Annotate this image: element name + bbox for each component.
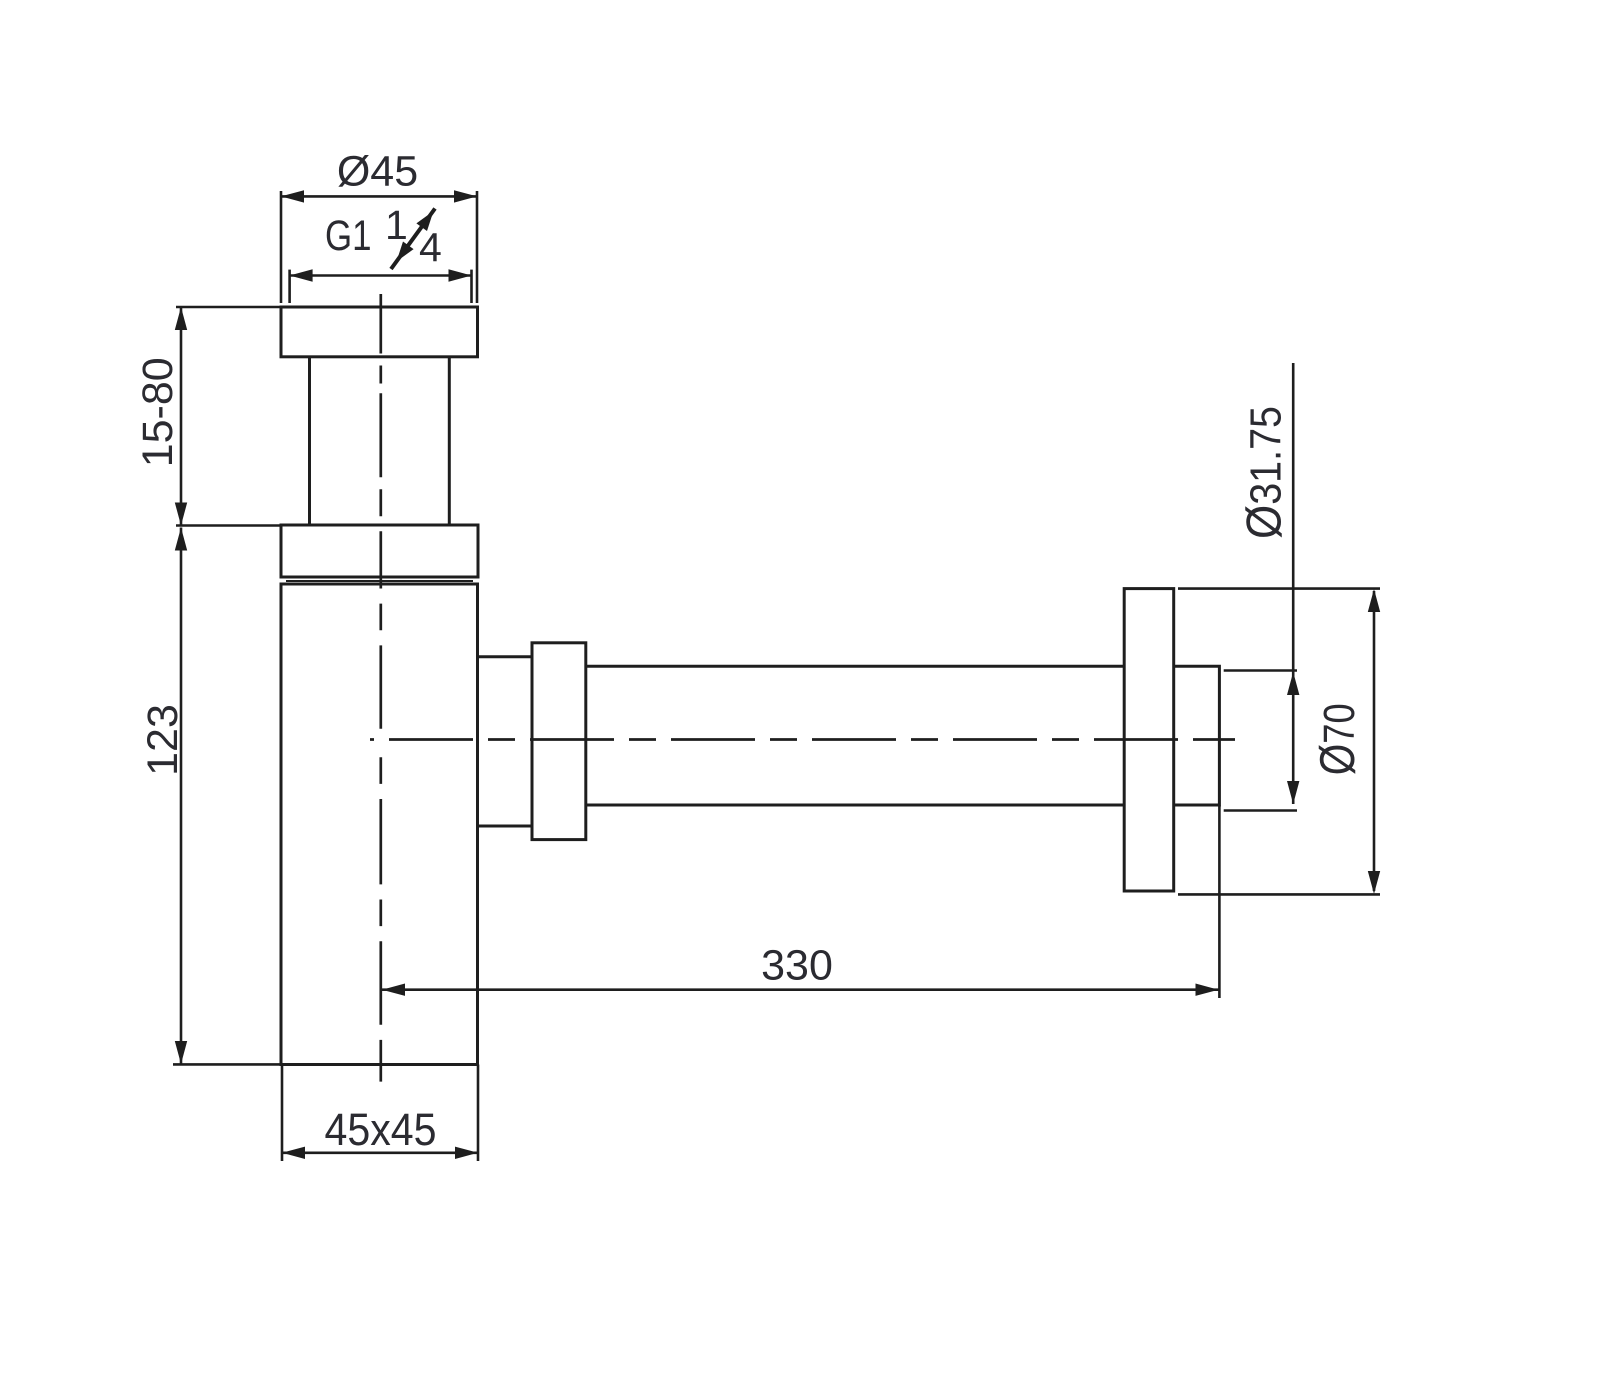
arrow 45x45 right	[455, 1147, 478, 1159]
arrow 330 left	[382, 984, 405, 996]
dim 330 extension	[1218, 805, 1221, 998]
dim Ø45 extension lines	[280, 191, 283, 303]
svg-text:45x45: 45x45	[325, 1104, 437, 1155]
svg-text:330: 330	[761, 942, 833, 990]
dim Ø70 line	[1373, 591, 1376, 891]
dim G1 extension ticks	[288, 270, 291, 303]
vertical centerline	[379, 294, 382, 1082]
svg-text:15-80: 15-80	[134, 357, 182, 467]
svg-text:4: 4	[419, 225, 442, 271]
arrow Ø70 bottom	[1368, 871, 1380, 894]
svg-text:1: 1	[385, 202, 408, 248]
arrow Ø70 top	[1368, 589, 1380, 612]
dim Ø70 extensions	[1178, 587, 1380, 590]
arrow 123 bottom	[175, 1041, 187, 1064]
dim 45x45 line	[282, 1152, 478, 1155]
arrow Ø45 right	[454, 190, 477, 202]
dim 45x45 extensions	[281, 1065, 284, 1162]
horizontal pipe bottom	[586, 804, 1124, 807]
body top collar	[281, 525, 478, 577]
arrow 15-80 top	[175, 307, 187, 330]
pipe end tail	[1174, 666, 1220, 805]
dim Ø31.75 line with overshoot	[1292, 363, 1295, 804]
compression nut	[532, 643, 586, 840]
inlet pipe wall right	[448, 357, 451, 525]
svg-text:G1: G1	[325, 212, 372, 260]
wall flange	[1124, 589, 1174, 891]
arrow 15-80 bottom	[175, 503, 187, 526]
dim 15-80 line	[180, 307, 183, 526]
dim 15-80 top extension	[176, 306, 283, 309]
top flange (inlet nut)	[281, 307, 478, 357]
arrow G1 left	[290, 269, 313, 281]
horizontal centerline	[370, 738, 1235, 741]
arrow Ø45 left	[281, 190, 304, 202]
svg-text:123: 123	[139, 704, 187, 776]
arrow Ø31.75 bottom	[1287, 781, 1299, 804]
svg-text:Ø45: Ø45	[337, 148, 418, 196]
dim 123 line	[180, 528, 183, 1065]
arrow 123 top	[175, 528, 187, 551]
fraction slash double arrow	[391, 209, 435, 270]
trap body	[281, 584, 478, 1065]
arrow 45x45 left	[282, 1147, 305, 1159]
dim mid extension	[176, 524, 283, 527]
arrow G1 right	[449, 269, 472, 281]
washer line	[286, 580, 473, 582]
dim G1 line	[290, 274, 472, 277]
outlet stub top	[478, 655, 533, 658]
arrow Ø31.75 top	[1287, 672, 1299, 695]
dim bottom extension	[173, 1063, 283, 1066]
outlet stub bottom	[478, 825, 533, 828]
dim Ø31.75 extensions	[1224, 669, 1297, 672]
horizontal pipe top	[586, 665, 1124, 668]
inlet pipe wall left	[308, 357, 311, 525]
svg-text:Ø70: Ø70	[1311, 703, 1365, 775]
svg-text:Ø31.75: Ø31.75	[1238, 406, 1292, 539]
dim Ø45 line	[281, 195, 477, 198]
arrow 330 right	[1196, 984, 1219, 996]
dim 330 line	[382, 988, 1219, 991]
